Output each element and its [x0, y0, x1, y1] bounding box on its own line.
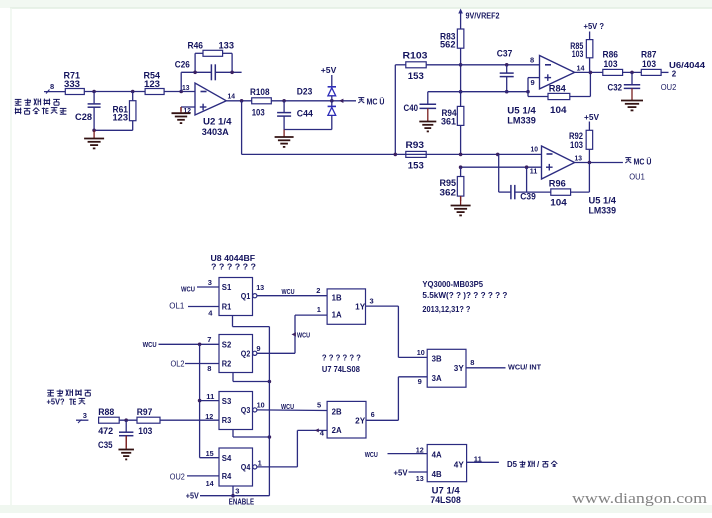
wire R86 to R87 — [623, 71, 642, 75]
svg-text:10: 10 — [257, 400, 265, 409]
svg-text:OU2: OU2 — [170, 472, 185, 481]
label U6/4044 — [669, 61, 706, 70]
capacitor C32 — [608, 72, 641, 92]
svg-text:13: 13 — [416, 474, 424, 483]
label 5.5kW line — [422, 290, 507, 300]
wire U2 output to R108 — [226, 99, 251, 103]
svg-text:WCU: WCU — [282, 287, 295, 296]
svg-text:1: 1 — [317, 305, 321, 314]
label U8 4044BF — [211, 253, 256, 263]
svg-text:WCU: WCU — [181, 284, 195, 293]
wire lower rail line C to pin 10 — [406, 153, 542, 157]
capacitor C37 — [497, 49, 514, 94]
svg-text:8: 8 — [530, 55, 534, 64]
resistor R83 — [440, 29, 464, 50]
svg-text:OL2: OL2 — [171, 359, 185, 368]
svg-text:3403A: 3403A — [202, 127, 229, 137]
svg-text:S3: S3 — [222, 397, 232, 406]
diode D23 lower — [328, 101, 336, 130]
wire 4Y output D5 — [467, 454, 499, 463]
label +5V detect line2 — [47, 397, 86, 406]
wire comparator output line OU2 — [575, 58, 603, 74]
svg-text:153: 153 — [408, 71, 424, 81]
svg-text:www.diangon.com: www.diangon.com — [572, 491, 708, 507]
ground for C44 — [275, 130, 294, 147]
svg-text:R93: R93 — [406, 140, 425, 150]
label D5 terminal CJK — [507, 460, 557, 469]
svg-text:4A: 4A — [432, 451, 442, 460]
svg-text:9: 9 — [531, 78, 535, 87]
resistor R95 — [440, 167, 464, 201]
wire MCU to S2 — [143, 335, 219, 349]
svg-text:R108: R108 — [250, 87, 270, 97]
svg-text:ENABLE: ENABLE — [229, 498, 254, 507]
wire latch4 bottom enable pin — [231, 486, 239, 498]
node input pin 3 — [76, 411, 88, 423]
resistor R94 — [441, 92, 464, 155]
ground for C40 — [419, 108, 436, 131]
feedback wire from output down — [571, 163, 590, 193]
label date line — [422, 304, 470, 314]
svg-text:S1: S1 — [222, 283, 232, 292]
svg-text:14: 14 — [206, 479, 215, 488]
svg-text:6: 6 — [371, 412, 375, 419]
svg-text:OL1: OL1 — [169, 302, 184, 311]
wire R97 to R3 — [160, 412, 219, 421]
svg-text:362: 362 — [440, 187, 457, 197]
wire latch3 bottom to enable bus — [233, 430, 271, 439]
feedback wire up from pin 13 — [179, 72, 183, 93]
wire OL1 to R1 — [169, 302, 219, 318]
svg-text:3: 3 — [83, 411, 87, 420]
wire line A to comparator pin 8 — [426, 63, 539, 67]
power +5V for D23 — [321, 65, 337, 87]
wire R108 to node to MC — [271, 99, 356, 103]
svg-text:8: 8 — [50, 82, 54, 91]
capacitor C35 — [98, 420, 133, 450]
resistor R61 — [94, 92, 136, 131]
svg-text:133: 133 — [219, 40, 235, 50]
wire +5V enable rail — [186, 492, 270, 501]
capacitor C26 — [175, 60, 242, 81]
svg-text:2013,12,31? ?: 2013,12,31? ? — [422, 304, 470, 314]
pin 12 wire and label — [181, 106, 195, 115]
svg-text:R46: R46 — [188, 40, 204, 50]
wire U2 output down to lower rail — [242, 101, 406, 155]
svg-text:3: 3 — [208, 278, 212, 287]
wire C39 to line C — [498, 154, 500, 192]
svg-text:123: 123 — [113, 113, 129, 123]
svg-text:4B: 4B — [432, 470, 442, 479]
label U8 question marks — [211, 261, 256, 271]
svg-text:? ? ? ? ? ?: ? ? ? ? ? ? — [211, 261, 256, 271]
svg-text:11: 11 — [206, 392, 214, 401]
wire R83 to node A — [459, 48, 463, 93]
svg-text:Q1: Q1 — [241, 292, 251, 301]
svg-text:C44: C44 — [297, 109, 313, 119]
svg-text:U7 1/4: U7 1/4 — [432, 485, 460, 495]
power +5V? for R85 — [584, 21, 605, 39]
svg-text:R2: R2 — [222, 360, 232, 369]
label input source CJK line2 — [15, 108, 67, 115]
wire 2Y to gate 3A — [366, 377, 427, 421]
svg-text:WCU: WCU — [297, 330, 310, 339]
svg-text:13: 13 — [256, 283, 264, 292]
node input pin 8 — [44, 82, 65, 94]
svg-text:8: 8 — [470, 358, 474, 367]
svg-text:103: 103 — [604, 59, 618, 69]
svg-text:3B: 3B — [432, 355, 442, 364]
svg-text:+5V ?: +5V ? — [584, 21, 605, 31]
svg-text:C37: C37 — [497, 49, 513, 59]
svg-text:WCU: WCU — [281, 402, 294, 411]
op-amp U2 — [195, 83, 236, 137]
comparator U5 second lower — [530, 144, 616, 215]
wire comparator2 output OU1 — [575, 161, 623, 165]
resistor R97 — [137, 407, 160, 436]
svg-text:14: 14 — [228, 92, 236, 101]
svg-text:2Y: 2Y — [355, 417, 366, 426]
svg-text:R97: R97 — [137, 407, 153, 417]
svg-text:R103: R103 — [403, 50, 428, 60]
svg-text:R1: R1 — [222, 303, 232, 312]
svg-text:S2: S2 — [222, 341, 232, 350]
wire line D to pin 11 — [459, 165, 542, 169]
svg-text:562: 562 — [440, 40, 456, 50]
power +5V for R92 — [584, 112, 599, 130]
svg-text:WCU: WCU — [143, 340, 157, 349]
svg-text:1B: 1B — [332, 294, 342, 303]
svg-text:10: 10 — [417, 348, 425, 357]
wire MCU to S1 — [181, 278, 219, 293]
svg-text:C39: C39 — [520, 191, 536, 201]
svg-text:LM339: LM339 — [589, 205, 617, 215]
gate U7 2B/2A — [327, 401, 366, 438]
ground for C28/R61 — [84, 129, 104, 149]
svg-text:R4: R4 — [222, 472, 232, 481]
label to MC OU1 — [625, 157, 651, 166]
svg-text:2: 2 — [672, 69, 677, 78]
svg-text:D23: D23 — [297, 86, 313, 96]
ground at U2 plus input — [172, 107, 191, 123]
svg-text:9: 9 — [418, 377, 422, 386]
svg-text:9: 9 — [256, 344, 260, 353]
svg-text:3A: 3A — [432, 374, 442, 383]
wire bus to S3 — [200, 392, 219, 401]
svg-text:74LS08: 74LS08 — [430, 495, 460, 505]
wire R88 to R97 — [119, 418, 137, 422]
capacitor C39 — [499, 185, 536, 201]
resistor R46 feedback loop — [188, 40, 235, 74]
feedback wire R96 to C39 — [515, 191, 551, 193]
wire Q4 to gate 2A — [257, 428, 327, 467]
svg-text:LM339: LM339 — [507, 115, 536, 125]
capacitor C40 — [404, 92, 437, 113]
svg-text:472: 472 — [98, 426, 113, 436]
resistor R92 — [569, 130, 593, 162]
svg-text:3: 3 — [370, 296, 374, 305]
resistor R85 — [570, 40, 593, 59]
label OU2 — [661, 82, 677, 92]
svg-text:12: 12 — [416, 445, 424, 454]
resistor R71 — [64, 71, 85, 95]
latch U8 S1/R1 box — [219, 278, 257, 316]
svg-text:333: 333 — [64, 79, 80, 89]
svg-text:13: 13 — [182, 83, 190, 92]
label U7 1/4 74LS08 — [430, 485, 460, 505]
svg-text:? ? ? ? ? ?: ? ? ? ? ? ? — [322, 352, 361, 362]
resistor R84 feedback — [528, 72, 590, 114]
svg-text:123: 123 — [144, 79, 160, 89]
ground for C32 — [621, 88, 643, 110]
svg-text:1Y: 1Y — [355, 303, 366, 312]
resistor R93 — [406, 140, 427, 171]
svg-text:7: 7 — [207, 335, 211, 344]
wire 1Y to gate 3B — [366, 296, 428, 357]
svg-text:4Y: 4Y — [454, 461, 465, 470]
svg-text:Q3: Q3 — [241, 406, 251, 415]
svg-text:+5V: +5V — [321, 65, 337, 75]
svg-text:5: 5 — [317, 400, 321, 409]
svg-text:10: 10 — [531, 144, 539, 153]
svg-text:1A: 1A — [332, 311, 342, 320]
svg-text:3Y: 3Y — [454, 364, 465, 373]
wire latch2 bottom to enable bus — [233, 373, 271, 384]
capacitor C44 — [277, 101, 313, 130]
latch U8 S3/R3 box — [219, 392, 257, 430]
diode D23 upper — [297, 86, 336, 101]
label OU1 — [629, 171, 645, 181]
svg-text:9V/VREF2: 9V/VREF2 — [466, 11, 501, 20]
wire OU2 to R4 — [170, 472, 219, 488]
svg-text:R95: R95 — [440, 178, 457, 188]
svg-text:15: 15 — [206, 449, 214, 458]
label to MC out1 — [358, 97, 384, 106]
gate U7 4A/4B — [427, 445, 466, 482]
wire R54 to op-amp pin 13 — [164, 83, 195, 92]
corner wire from lower rail up to line A — [394, 65, 406, 156]
svg-text:103: 103 — [572, 49, 584, 59]
svg-text:+5V: +5V — [394, 468, 409, 477]
resistor R108 — [250, 87, 271, 117]
svg-text:+5V: +5V — [186, 492, 200, 501]
wire latch1 bottom to enable bus — [233, 316, 270, 327]
svg-text:8: 8 — [207, 364, 211, 373]
svg-text:R88: R88 — [98, 407, 114, 417]
svg-text:361: 361 — [441, 116, 456, 126]
svg-text:R84: R84 — [549, 83, 566, 93]
wire bus corner to S4 — [200, 449, 219, 458]
svg-text:YQ3000-MB03P5: YQ3000-MB03P5 — [422, 279, 483, 289]
label input source CJK line1 — [15, 99, 60, 106]
latch U8 S4/R4 box — [219, 448, 257, 486]
svg-text:OU2: OU2 — [661, 82, 677, 92]
resistor R103 — [403, 50, 428, 81]
svg-text:104: 104 — [550, 197, 567, 207]
svg-text:WCU/ INT: WCU/ INT — [508, 362, 541, 371]
svg-text:S4: S4 — [222, 454, 232, 463]
svg-text:104: 104 — [550, 105, 567, 115]
wire 3Y output WCU/INT — [466, 358, 541, 371]
ground for R95 — [451, 196, 471, 215]
svg-text:U7 74LS08: U7 74LS08 — [322, 364, 360, 374]
wire Q2 to gate 1A — [256, 305, 327, 353]
wire Q1 to gate 1B — [256, 283, 327, 296]
wire Q3 to gate 2B — [257, 400, 328, 411]
svg-text:3: 3 — [235, 486, 239, 495]
svg-text:5.5kW(? ? )? ? ? ? ? ?: 5.5kW(? ? )? ? ? ? ? ? — [422, 290, 507, 300]
capacitor C28 — [75, 92, 101, 131]
label +5V detect CJK line1 — [47, 389, 91, 396]
svg-text:2: 2 — [316, 286, 320, 295]
wire OL2 to R2 — [171, 359, 220, 372]
wire diode bottom to ground link — [284, 129, 332, 131]
svg-text:C28: C28 — [75, 112, 92, 122]
label U7 mid question marks — [322, 352, 361, 362]
wire +5V to 4B — [394, 468, 428, 483]
svg-text:Q4: Q4 — [241, 463, 251, 472]
svg-text:U2 1/4: U2 1/4 — [203, 117, 232, 127]
svg-text:R3: R3 — [222, 416, 232, 425]
watermark www.diangon.com — [572, 491, 708, 507]
svg-text:U5 1/4: U5 1/4 — [589, 195, 617, 205]
svg-text:C32: C32 — [608, 83, 623, 93]
svg-text:14: 14 — [577, 63, 586, 72]
label U7 74LS08 mid — [322, 364, 360, 374]
svg-text:+5V?: +5V? — [47, 397, 65, 406]
svg-text:103: 103 — [570, 140, 583, 150]
svg-text:+5V: +5V — [584, 112, 599, 122]
resistor R88 — [98, 407, 119, 436]
svg-text:103: 103 — [252, 107, 265, 117]
wire R71 to R54 — [84, 90, 145, 94]
label ENABLE — [229, 498, 254, 507]
svg-text:C40: C40 — [404, 103, 419, 113]
wire pin11 junction down to feedback — [526, 167, 528, 192]
resistor R96 — [549, 178, 571, 207]
svg-text:C26: C26 — [175, 60, 190, 70]
gate U7 1B/1A — [327, 289, 366, 324]
svg-text:103: 103 — [138, 426, 152, 436]
svg-text:103: 103 — [642, 59, 656, 69]
svg-text:153: 153 — [408, 160, 424, 170]
svg-text:MC Ü: MC Ü — [367, 97, 385, 106]
svg-text:D5: D5 — [507, 460, 518, 469]
gate U7 3B/3A — [427, 349, 466, 387]
svg-text:R96: R96 — [549, 178, 566, 188]
wire enable bus vertical — [268, 327, 270, 496]
wire line B — [428, 90, 530, 94]
ground for C35 — [118, 436, 134, 460]
svg-text:2A: 2A — [332, 426, 342, 435]
svg-text:1: 1 — [258, 458, 262, 467]
svg-text:2B: 2B — [332, 408, 342, 417]
power 9V/VREF2 — [458, 9, 500, 30]
comparator U5 first upper — [507, 55, 585, 125]
svg-text:11: 11 — [474, 454, 482, 463]
svg-text:Q2: Q2 — [241, 350, 251, 359]
resistor R86 — [603, 50, 623, 76]
wire pin9 vertical — [528, 78, 540, 97]
svg-text:12: 12 — [205, 412, 213, 421]
svg-text:OU1: OU1 — [629, 171, 645, 181]
resistor R87 — [641, 50, 661, 76]
wire WCU bus vertical — [198, 344, 202, 457]
svg-text:MC Ü: MC Ü — [634, 157, 652, 166]
svg-text:WCU: WCU — [365, 450, 378, 459]
wire WCU to 4A — [365, 445, 427, 459]
wire to U6/4044 output node — [661, 69, 677, 78]
svg-text:C35: C35 — [98, 440, 113, 450]
svg-text:U5 1/4: U5 1/4 — [507, 106, 536, 116]
resistor R54 — [144, 71, 165, 95]
svg-text:13: 13 — [575, 153, 583, 162]
svg-text:U6/4044: U6/4044 — [669, 61, 706, 70]
latch U8 S2/R2 box — [219, 335, 257, 373]
tap WCU on Q2 wire — [292, 330, 311, 339]
label YQ3000 title — [422, 279, 483, 289]
